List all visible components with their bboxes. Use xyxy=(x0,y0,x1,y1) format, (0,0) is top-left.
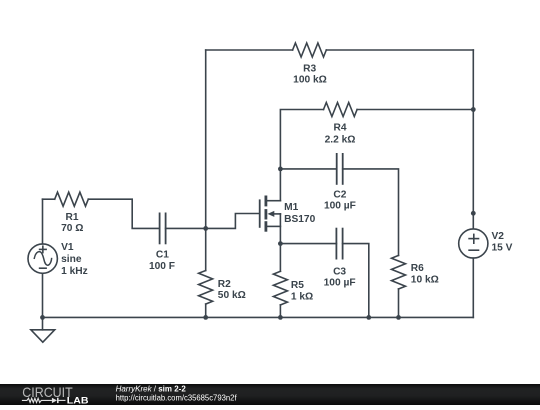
node ground junction xyxy=(40,315,45,320)
svg-text:50 kΩ: 50 kΩ xyxy=(218,290,246,301)
node C3 bottom junction xyxy=(366,315,371,320)
node R4 right junction xyxy=(471,107,476,112)
svg-text:100 F: 100 F xyxy=(149,261,175,272)
node R2 bottom junction xyxy=(203,315,208,320)
resistor R3 xyxy=(293,43,327,85)
svg-text:10 kΩ: 10 kΩ xyxy=(411,274,439,285)
svg-text:R2: R2 xyxy=(218,279,231,290)
wire V2 bottom lead xyxy=(472,258,474,317)
node V2 top junction xyxy=(471,211,476,216)
wire right rail middle xyxy=(472,110,474,214)
wire C3 left xyxy=(280,243,336,245)
wire R1 left xyxy=(43,198,55,200)
svg-text:C2: C2 xyxy=(333,190,346,201)
svg-text:R6: R6 xyxy=(411,263,424,274)
logo wire-resistor-diode glyph xyxy=(22,398,66,403)
wire R2 top xyxy=(205,228,207,270)
wire C2 right to R6 top xyxy=(343,169,399,256)
node R5 top junction xyxy=(278,241,283,246)
svg-text:V2: V2 xyxy=(492,231,505,242)
svg-text:1 kΩ: 1 kΩ xyxy=(291,292,313,303)
svg-text:M1: M1 xyxy=(284,202,298,213)
svg-text:V1: V1 xyxy=(61,242,74,253)
svg-text:BS170: BS170 xyxy=(284,214,315,225)
capacitor C2 xyxy=(324,154,356,212)
svg-text:sine: sine xyxy=(61,254,82,265)
resistor R2 xyxy=(199,271,246,305)
wire R4 right xyxy=(357,109,473,111)
voltage source V1 xyxy=(28,242,88,277)
wire R3 left xyxy=(206,49,293,51)
wire R4 left xyxy=(280,110,323,169)
wire R6 bottom xyxy=(398,289,400,317)
resistor R5 xyxy=(273,271,313,305)
svg-text:LAB: LAB xyxy=(67,396,89,406)
wire gate lead xyxy=(206,214,259,229)
wire top-left vertical (gate node riser) xyxy=(205,50,207,228)
wire V1 top lead xyxy=(42,199,44,244)
svg-text:70 Ω: 70 Ω xyxy=(61,223,83,234)
wire C1 right xyxy=(166,227,206,229)
transistor M1 xyxy=(260,197,316,244)
node R5 bottom junction xyxy=(278,315,283,320)
wire R5 top xyxy=(279,244,281,272)
wire V1 bottom lead xyxy=(42,273,44,317)
wire right rail upper xyxy=(472,50,474,110)
wire C3 right down to rail xyxy=(343,244,369,318)
svg-text:1 kHz: 1 kHz xyxy=(61,266,88,277)
svg-text:CIRCUIT: CIRCUIT xyxy=(22,384,73,400)
resistor R4 xyxy=(324,103,358,146)
svg-text:100 µF: 100 µF xyxy=(324,277,356,288)
svg-text:100 kΩ: 100 kΩ xyxy=(293,74,327,85)
wire R5 bottom xyxy=(279,305,281,318)
wire drain riser xyxy=(279,169,281,201)
svg-text:R1: R1 xyxy=(65,212,78,223)
resistor R1 xyxy=(55,192,89,234)
svg-text:http://circuitlab.com/c35685c7: http://circuitlab.com/c35685c793n2f xyxy=(116,392,238,402)
node C2 left junction xyxy=(278,167,283,172)
svg-text:C3: C3 xyxy=(333,266,346,277)
svg-text:R5: R5 xyxy=(291,280,304,291)
footer bar xyxy=(0,384,540,405)
resistor R6 xyxy=(392,255,439,289)
wire R1 right to C1 xyxy=(88,199,159,228)
wire C2 left xyxy=(280,168,336,170)
wire ground stub xyxy=(42,317,44,329)
svg-text:2.2 kΩ: 2.2 kΩ xyxy=(325,135,356,146)
capacitor C1 xyxy=(149,213,175,272)
wire R2 bottom xyxy=(205,304,207,317)
svg-text:R4: R4 xyxy=(333,123,346,134)
wire V2 top lead xyxy=(472,213,474,228)
wire bottom rail xyxy=(43,316,474,318)
node C1 right junction xyxy=(203,226,208,231)
svg-text:R3: R3 xyxy=(303,64,316,75)
svg-text:C1: C1 xyxy=(156,250,169,261)
ground xyxy=(31,330,55,342)
wire R3 right xyxy=(326,49,473,51)
svg-text:15 V: 15 V xyxy=(492,242,513,253)
svg-text:100 µF: 100 µF xyxy=(324,201,356,212)
node R6 bottom junction xyxy=(396,315,401,320)
voltage source V2 xyxy=(459,229,513,258)
capacitor C3 xyxy=(324,229,356,289)
